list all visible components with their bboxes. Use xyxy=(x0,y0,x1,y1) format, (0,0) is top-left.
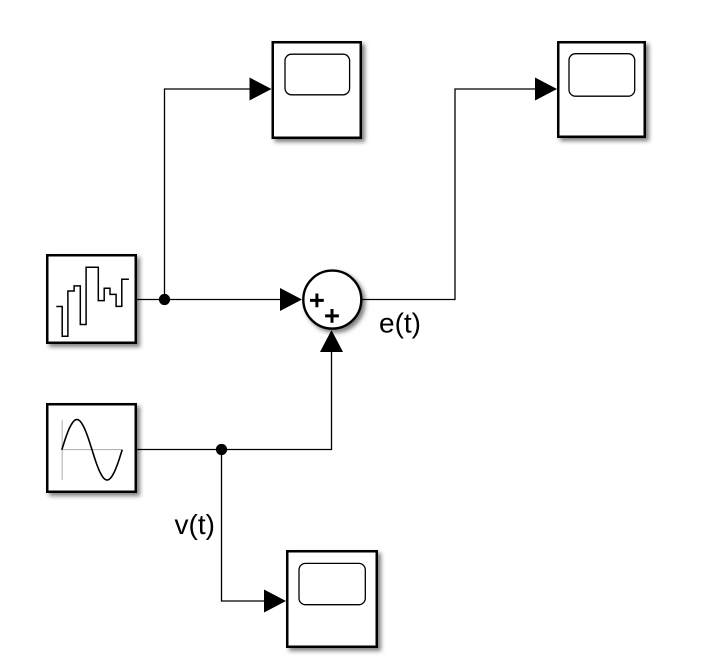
sine curve xyxy=(62,420,122,481)
arrowhead into Scope 3 xyxy=(264,590,286,613)
block: Scope 2 (top right) xyxy=(558,42,645,137)
noise staircase waveform xyxy=(56,267,129,336)
wire: sum output to Scope 2 xyxy=(363,89,536,300)
svg-text:e(t): e(t) xyxy=(379,308,421,339)
arrowhead up into sum bottom port xyxy=(320,330,343,352)
wire: sine output with branch up to sum bottom port xyxy=(137,352,332,450)
plus sign for left input xyxy=(310,294,324,308)
wire: branch up to Scope 1 xyxy=(165,89,251,300)
Scope 3 screen xyxy=(299,563,365,604)
arrowhead into sum left port xyxy=(280,288,302,311)
wire: branch down to Scope 3 xyxy=(222,450,265,602)
plus sign for bottom input xyxy=(325,309,339,323)
sine axes (gray) xyxy=(61,420,122,480)
Scope 2 screen xyxy=(569,54,635,96)
block: Sine Wave source xyxy=(47,404,136,492)
arrowhead into Scope 1 xyxy=(250,78,272,101)
block: Scope 1 (top left) xyxy=(273,42,361,138)
Scope 1 screen xyxy=(285,54,350,95)
junction dot on noise wire xyxy=(159,294,170,305)
wire: noise output to sum input xyxy=(137,299,281,301)
junction dot on sine wire xyxy=(216,444,227,455)
block: Sum (adder circle) xyxy=(303,271,361,329)
arrowhead into Scope 2 xyxy=(535,78,557,101)
block: Band-Limited White Noise source xyxy=(47,255,136,343)
svg-text:v(t): v(t) xyxy=(175,509,215,540)
block: Scope 3 (bottom) xyxy=(287,551,377,647)
